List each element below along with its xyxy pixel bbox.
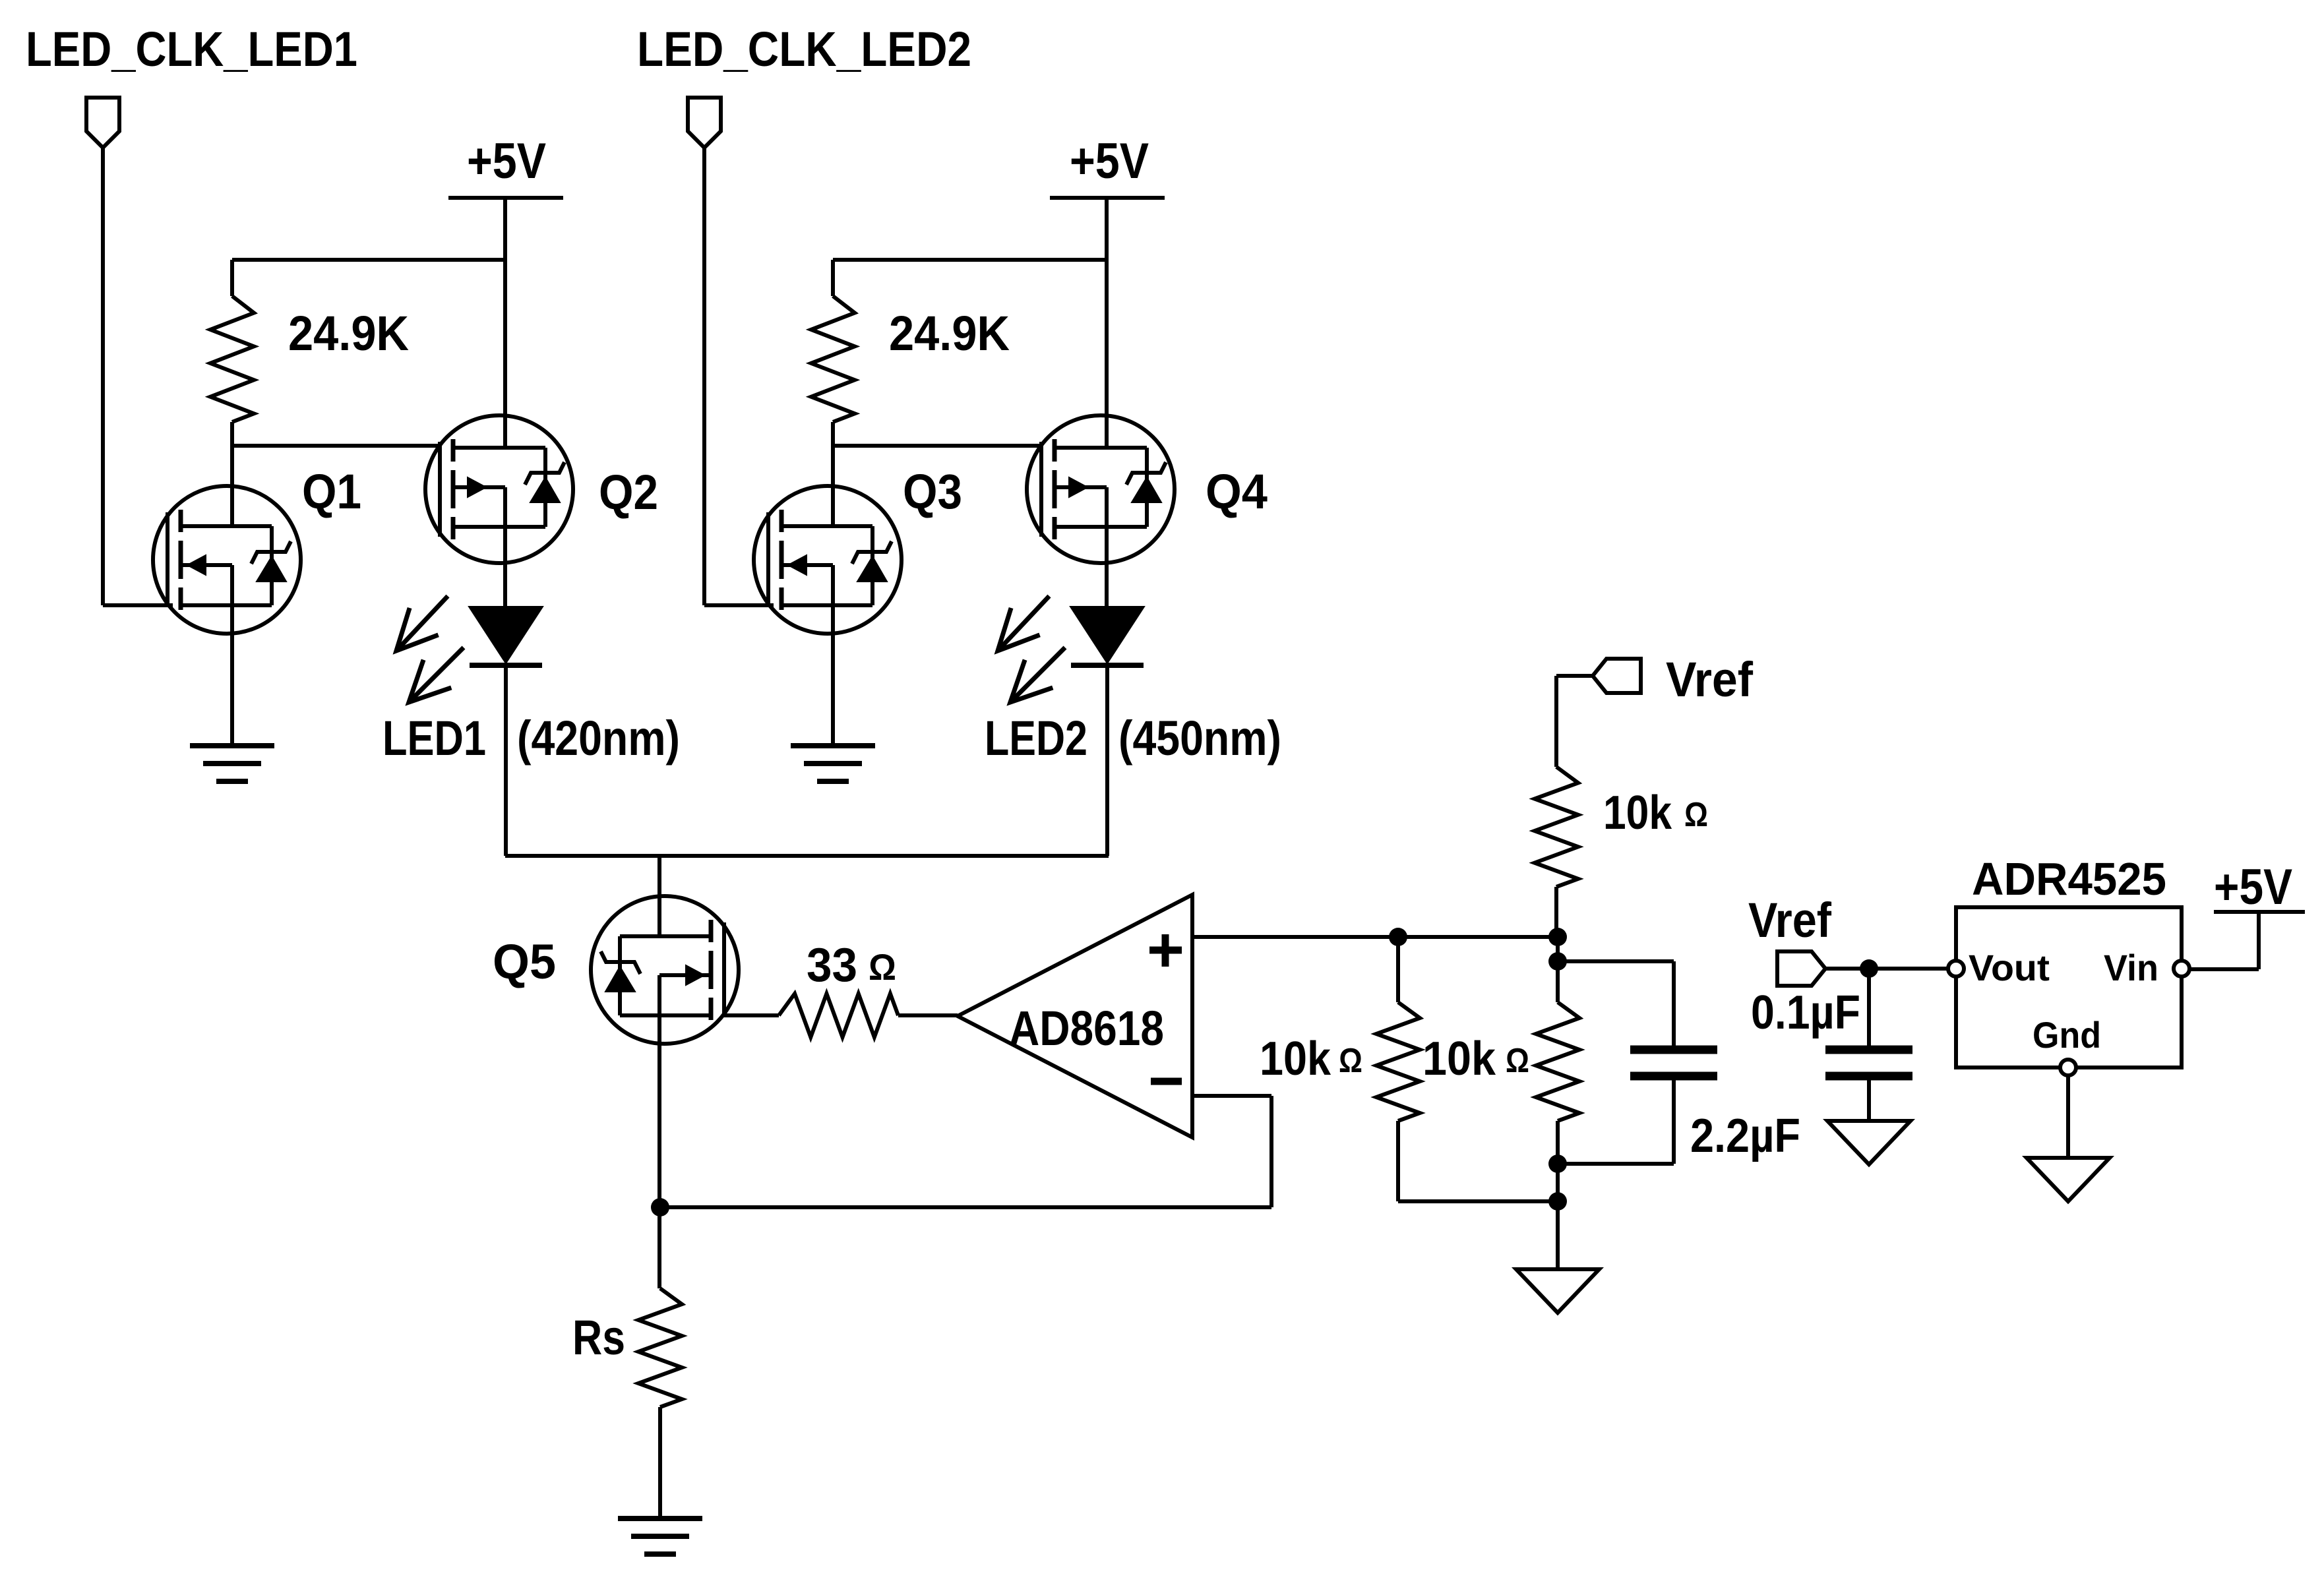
power +5V rail 3 [2214, 859, 2292, 915]
pin connector Vref right [1777, 951, 1825, 986]
wire [831, 446, 835, 526]
resistor R3 33 [779, 994, 898, 1037]
wire [704, 148, 774, 605]
op-amp plus input marker [1149, 934, 1182, 967]
value label 33 ohm [807, 939, 896, 992]
svg-text:LED1: LED1 [382, 711, 486, 766]
transistor Q1 [153, 486, 301, 634]
wire [833, 444, 1041, 448]
net label Vref right [1748, 893, 1831, 947]
resistor R4 10k [1535, 767, 1578, 887]
svg-text:10k: 10k [1603, 787, 1672, 839]
svg-text:Vref: Vref [1748, 893, 1831, 947]
wire [1105, 527, 1109, 607]
junction [1548, 928, 1567, 946]
wire [1867, 969, 1871, 1046]
svg-text:Vref: Vref [1666, 652, 1753, 707]
label LED1 [382, 711, 486, 766]
net label Vref top [1666, 652, 1753, 707]
ground [791, 746, 875, 781]
pin connector LED_CLK_LED1 [86, 98, 119, 148]
net label LED_CLK_LED2 [637, 22, 971, 76]
ground [1827, 1121, 1911, 1164]
LED2 emission arrows [998, 596, 1065, 702]
transistor Q3 [754, 486, 902, 634]
ground [190, 746, 274, 781]
label AD8618 [1009, 1001, 1164, 1056]
wire [2214, 910, 2305, 914]
label LED2 [985, 711, 1087, 766]
svg-text:Rs: Rs [572, 1310, 625, 1365]
svg-text:Ω: Ω [1506, 1042, 1529, 1080]
LED LED1 [469, 607, 543, 665]
pin label Vout [1969, 947, 2050, 988]
wire [1398, 1199, 1558, 1203]
resistor R6 10k [1536, 1002, 1579, 1201]
wire [831, 605, 835, 746]
wire [1105, 198, 1109, 448]
value label 10k ohm top [1603, 787, 1708, 839]
wire [1556, 937, 1560, 1002]
transistor Q5 [591, 896, 739, 1044]
svg-text:+5V: +5V [2214, 859, 2292, 915]
svg-text:24.9K: 24.9K [889, 306, 1010, 361]
pin Vin [2174, 961, 2189, 977]
label Q2 [599, 465, 658, 520]
resistor R5 10k [1376, 937, 1420, 1201]
wire [1867, 1080, 1871, 1121]
value label 10k ohm left [1260, 1033, 1362, 1085]
svg-text:Q1: Q1 [302, 464, 361, 519]
wire [505, 854, 1109, 858]
wire [230, 446, 234, 526]
wire [503, 527, 507, 607]
label ADR4525 [1972, 853, 2166, 905]
svg-text:0.1µF: 0.1µF [1751, 986, 1860, 1039]
value label 0.1uF [1751, 986, 1860, 1039]
junction [1548, 1155, 1567, 1173]
label Rs [572, 1310, 625, 1365]
wire [1558, 961, 1674, 1046]
wire [232, 258, 505, 262]
wire [1192, 1096, 1271, 1207]
wire [103, 148, 173, 605]
pin Gnd [2060, 1060, 2076, 1075]
pin connector Vref top [1593, 659, 1641, 693]
transistor Q2 [425, 415, 573, 563]
LED1 emission arrows [396, 596, 464, 702]
svg-text:Vout: Vout [1969, 947, 2050, 988]
svg-text:24.9K: 24.9K [288, 306, 409, 361]
svg-text:10k: 10k [1260, 1033, 1331, 1085]
resistor Rs [638, 1288, 682, 1407]
net label LED_CLK_LED1 [26, 22, 357, 76]
capacitor C2 0.1uF [1825, 1050, 1912, 1076]
pin label Gnd [2033, 1014, 2101, 1056]
value label 24.9K [288, 306, 409, 361]
wire [1105, 665, 1109, 856]
svg-text:LED_CLK_LED1: LED_CLK_LED1 [26, 22, 357, 76]
op-amp minus input marker [1151, 1078, 1182, 1085]
pin connector LED_CLK_LED2 [688, 98, 721, 148]
svg-text:LED2: LED2 [985, 711, 1087, 766]
wire [898, 1013, 958, 1017]
svg-text:2.2µF: 2.2µF [1690, 1110, 1800, 1162]
svg-text:(420nm): (420nm) [517, 711, 680, 766]
wire [1825, 967, 1948, 971]
wire [1050, 196, 1165, 200]
svg-text:Ω: Ω [869, 946, 896, 988]
power +5V rail 1 [467, 133, 546, 189]
wire [503, 198, 507, 448]
svg-text:Ω: Ω [1684, 796, 1708, 834]
value label 2.2uF [1690, 1110, 1800, 1162]
junction [651, 1198, 669, 1217]
ground [1516, 1269, 1599, 1313]
svg-text:+5V: +5V [1070, 133, 1149, 189]
svg-text:Q4: Q4 [1206, 464, 1268, 519]
value label 10k ohm right [1422, 1033, 1529, 1085]
svg-text:33: 33 [807, 939, 857, 992]
wire [232, 444, 440, 448]
junction [1548, 1192, 1567, 1211]
resistor R2 24.9K [811, 260, 855, 446]
wire [1556, 1201, 1560, 1269]
IC U2 ADR4525 box [1956, 907, 2182, 1067]
wire [660, 1205, 1271, 1209]
svg-text:Q2: Q2 [599, 465, 658, 520]
wire [504, 665, 508, 856]
wire [2189, 912, 2259, 969]
power +5V rail 2 [1070, 133, 1149, 189]
wire [2066, 1075, 2070, 1158]
svg-text:Q3: Q3 [903, 464, 962, 519]
wire [1554, 887, 1558, 937]
svg-text:Vin: Vin [2104, 947, 2158, 988]
wire [657, 856, 661, 937]
junction [1548, 952, 1567, 971]
capacitor C1 2.2uF [1630, 1050, 1717, 1076]
pin Vout [1948, 961, 1964, 977]
svg-text:10k: 10k [1422, 1033, 1496, 1085]
wire [448, 196, 563, 200]
label Q4 [1206, 464, 1268, 519]
pin label Vin [2104, 947, 2158, 988]
label Q5 [493, 934, 556, 989]
svg-text:AD8618: AD8618 [1009, 1001, 1164, 1056]
svg-text:Q5: Q5 [493, 934, 556, 989]
value label (450nm) [1118, 711, 1281, 766]
svg-text:Gnd: Gnd [2033, 1014, 2101, 1056]
junction [1389, 928, 1407, 946]
transistor Q4 [1027, 415, 1175, 563]
op-amp U1 AD8618 [958, 895, 1192, 1137]
resistor R1 24.9K [210, 260, 254, 446]
wire [833, 258, 1107, 262]
svg-text:ADR4525: ADR4525 [1972, 853, 2166, 905]
value label (420nm) [517, 711, 680, 766]
label Q3 [903, 464, 962, 519]
svg-text:(450nm): (450nm) [1118, 711, 1281, 766]
wire [1192, 935, 1558, 939]
LED LED2 [1070, 607, 1144, 665]
junction [1860, 959, 1878, 978]
value label 24.9K [889, 306, 1010, 361]
wire [1556, 676, 1593, 767]
svg-text:LED_CLK_LED2: LED_CLK_LED2 [637, 22, 971, 76]
svg-text:Ω: Ω [1339, 1042, 1362, 1080]
wire [230, 605, 234, 746]
wire [724, 1013, 779, 1017]
ground [618, 1518, 702, 1554]
svg-text:+5V: +5V [467, 133, 546, 189]
wire [658, 1407, 662, 1518]
wire [1558, 1080, 1674, 1164]
label Q1 [302, 464, 361, 519]
wire [657, 1015, 661, 1288]
ground [2027, 1158, 2110, 1201]
